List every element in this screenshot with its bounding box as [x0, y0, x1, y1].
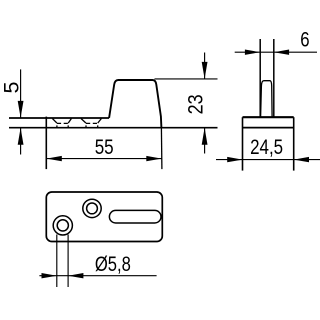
side view plate bottom line (extends right as extension line for dim 23): [9, 127, 218, 129]
dim 24,5 left arrow (pointing right): [227, 157, 242, 162]
svg-text:Ø5,8: Ø5,8: [95, 252, 131, 276]
dim 5 dimension line upper segment: [20, 69, 22, 118]
end view base top line: [243, 116, 294, 118]
dim 6 right arrow (pointing left): [274, 50, 289, 55]
top view hole 2 inner circle: [87, 203, 98, 214]
end view base right side: [293, 117, 295, 170]
dim 6 left arrow (pointing right): [245, 50, 260, 55]
dim 24,5 dimension line: [216, 159, 320, 161]
top view slot: [109, 210, 161, 223]
top view hole 2 outer circle (countersink): [83, 199, 101, 217]
dim 5,8 left arrow (pointing right): [42, 273, 57, 278]
bump outline (side view): [109, 80, 161, 128]
hidden countersunk hole A left wall dash: [56, 125, 58, 128]
dim 5 upper arrow (down): [18, 101, 24, 118]
svg-text:23: 23: [184, 94, 208, 114]
dim 23 upper arrow (down): [202, 62, 208, 79]
svg-text:55: 55: [95, 135, 114, 159]
svg-text:24,5: 24,5: [250, 135, 283, 159]
top view hole 1 outer circle (countersink): [53, 216, 72, 235]
dim 5,8 left extension line: [56, 235, 58, 288]
dim 55 dimension line: [46, 158, 162, 160]
dim 23 dimension line upper segment: [204, 53, 206, 79]
dim 24,5 right arrow (pointing left): [294, 157, 309, 162]
end view fin right line (also extension for dim 6): [273, 39, 275, 117]
svg-text:5: 5: [0, 81, 23, 93]
end view base inner line: [243, 127, 294, 129]
side view plate top line: [9, 117, 109, 119]
bump right extension line down to dim 55: [160, 128, 163, 169]
hidden countersunk hole B left wall dash: [85, 125, 87, 128]
side view left edge (extends down as extension line for dim 55): [45, 117, 47, 170]
top view hole 1 inner circle: [57, 220, 68, 231]
hidden countersunk hole A left cone dash: [52, 119, 57, 124]
hidden countersunk hole B bottom dashes: [86, 122, 98, 124]
dim 55 right arrow: [146, 156, 161, 161]
hidden countersunk hole B left cone dash: [81, 119, 86, 124]
end view fin left line (also extension for dim 6): [259, 39, 261, 117]
dim 5,8 dimension line: [39, 275, 156, 277]
hidden countersunk hole B right cone dash: [98, 119, 102, 124]
dim 6 dimension line: [235, 51, 317, 53]
dim 23 dimension line lower segment: [204, 128, 206, 154]
dim 55 left arrow: [47, 156, 62, 161]
dim 5 lower arrow (up): [18, 128, 24, 145]
hidden countersunk hole B right wall dash: [97, 125, 99, 128]
dim 23 top extension line: [155, 78, 218, 80]
end view tongue profile: [261, 81, 273, 118]
end view base left side: [242, 117, 244, 170]
hidden countersunk hole A right wall dash: [67, 125, 69, 128]
dim 5,8 right arrow (pointing left): [68, 273, 83, 278]
hidden countersunk hole A bottom dashes: [57, 122, 68, 124]
top view plate outline: [46, 192, 162, 242]
svg-text:6: 6: [300, 29, 309, 52]
hidden countersunk hole A right cone dash: [68, 119, 71, 124]
dim 23 lower arrow (up): [202, 128, 208, 145]
dim 5 dimension line lower segment: [20, 128, 22, 155]
dim 5,8 right extension line: [67, 235, 69, 288]
